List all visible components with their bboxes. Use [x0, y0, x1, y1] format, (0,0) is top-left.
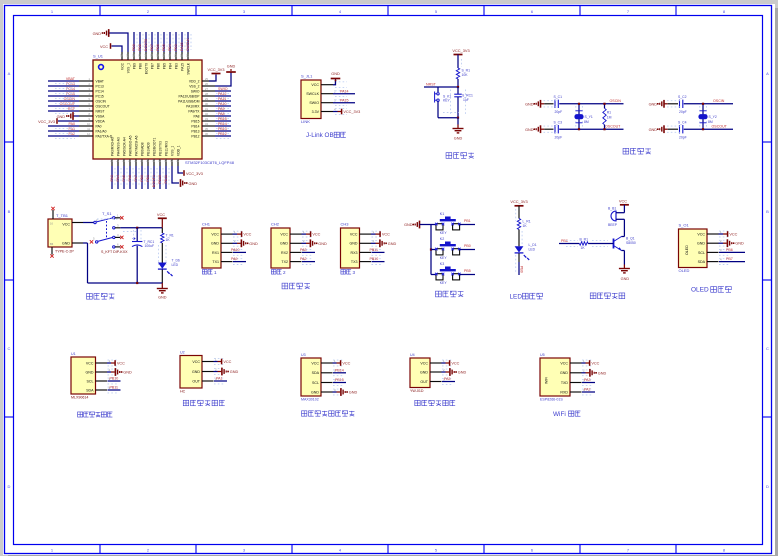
svg-text:U4: U4 — [410, 353, 415, 357]
svg-text:VCC: VCC — [311, 361, 319, 365]
svg-text:PB11/RX3: PB11/RX3 — [164, 141, 168, 156]
svg-text:VSSA: VSSA — [96, 114, 106, 118]
grid dash artifacts reset — [450, 90, 452, 115]
svg-text:B6: B6 — [50, 242, 54, 246]
junction reset bottom — [457, 117, 459, 119]
svg-text:VCC: VCC — [223, 360, 231, 364]
svg-text:KEY: KEY — [440, 281, 448, 285]
J-Link connector S_JL1 body — [301, 80, 321, 119]
svg-text:CH1: CH1 — [202, 222, 211, 227]
resistor S_R1 10K — [456, 68, 459, 79]
svg-text:20pF: 20pF — [555, 136, 563, 140]
svg-text:PA5: PA5 — [122, 175, 126, 182]
svg-text:PB14: PB14 — [335, 368, 344, 372]
TYPE-C GND pin wire — [72, 242, 83, 244]
resistor L_R1 1K — [517, 219, 520, 230]
svg-text:PB7: PB7 — [150, 44, 154, 51]
svg-text:PA4: PA4 — [116, 175, 120, 182]
junction cap to ground rail — [136, 282, 138, 284]
TYPE-C shield stub bottom with no-ERC cross — [51, 247, 53, 255]
ground at CH1 pin2 — [233, 242, 238, 244]
power VCC at CH1 pin1 — [233, 233, 238, 235]
svg-text:GND: GND — [349, 391, 358, 395]
svg-text:B: B — [766, 209, 769, 214]
svg-text:PA3: PA3 — [300, 248, 307, 252]
svg-text:GND: GND — [158, 296, 167, 300]
svg-text:BOOT0: BOOT0 — [144, 63, 148, 74]
svg-text:WiFi: WiFi — [545, 377, 549, 384]
wire U3 pin3 net PB15 — [333, 382, 346, 384]
MCU left net label wires — [48, 81, 79, 136]
svg-text:PA11: PA11 — [218, 97, 226, 101]
svg-text:PA15: PA15 — [180, 42, 184, 51]
wire K1 to net label — [460, 224, 475, 226]
svg-text:PA2: PA2 — [300, 257, 307, 261]
svg-text:VCC: VCC — [100, 45, 108, 49]
svg-text:PB10: PB10 — [370, 257, 379, 261]
svg-text:PA8: PA8 — [194, 114, 200, 118]
ground rail power circuit — [87, 243, 89, 283]
capacitor S_C2 20pF — [680, 100, 683, 108]
ground at MCU top pin 2 — [109, 33, 128, 52]
ground at J-Link pin 1 — [333, 79, 336, 85]
J-Link pins — [321, 81, 347, 115]
svg-text:R1: R1 — [607, 111, 611, 115]
svg-text:PB6: PB6 — [726, 248, 733, 252]
power VCC at OLED pin1 — [719, 233, 724, 235]
svg-text:RX3: RX3 — [351, 251, 358, 255]
wire buzzer to VCC and collector — [616, 212, 624, 214]
svg-text:PA0: PA0 — [96, 124, 102, 128]
svg-text:PB7: PB7 — [726, 257, 733, 261]
MCU left net labels — [60, 77, 76, 136]
resistor T_R1 1K — [161, 228, 163, 233]
svg-text:OUT: OUT — [192, 379, 200, 383]
svg-text:LED: LED — [172, 263, 179, 267]
svg-text:OSCIN: OSCIN — [64, 97, 76, 101]
svg-text:PA3/RXD-A0: PA3/RXD-A0 — [110, 137, 114, 156]
svg-text:S_C2: S_C2 — [678, 95, 687, 99]
svg-text:VCC: VCC — [311, 83, 319, 87]
wire U3 pin2 net PB14 — [333, 372, 346, 374]
capacitor S_C4 20pF — [680, 125, 683, 133]
svg-text:GND: GND — [649, 128, 658, 132]
svg-text:YW-01D: YW-01D — [410, 389, 424, 393]
svg-text:GND: GND — [454, 137, 463, 141]
svg-text:PB7: PB7 — [150, 63, 154, 69]
title liquid level module — [415, 400, 455, 405]
module U5 body — [540, 358, 570, 396]
svg-text:VCC_3V3: VCC_3V3 — [38, 120, 55, 124]
svg-text:1K: 1K — [166, 238, 171, 242]
svg-text:PB12: PB12 — [218, 132, 227, 136]
module U5 pins — [570, 359, 593, 395]
svg-text:VDD_1: VDD_1 — [176, 145, 180, 156]
svg-text:PA9: PA9 — [231, 257, 238, 261]
svg-text:PA1: PA1 — [216, 377, 223, 381]
svg-text:PB1: PB1 — [146, 175, 150, 182]
svg-text:T_RC1: T_RC1 — [144, 240, 155, 244]
module U4 pins — [430, 359, 453, 385]
power VCC at U5 pin1 — [582, 362, 586, 364]
power VCC at U1 pin1 — [107, 362, 111, 364]
svg-text:SWCLK: SWCLK — [186, 62, 190, 75]
svg-text:PB5: PB5 — [162, 44, 166, 51]
svg-text:VCC_3V3: VCC_3V3 — [510, 199, 527, 204]
ground buzzer — [619, 269, 630, 273]
wire node to button — [437, 87, 439, 92]
tact switch K1 — [431, 224, 436, 226]
svg-text:PB13: PB13 — [191, 129, 199, 133]
svg-text:S_O1: S_O1 — [679, 223, 690, 228]
svg-text:8M: 8M — [584, 120, 589, 124]
MCU U1 body STM32F103C8T6 — [93, 60, 202, 159]
svg-text:PB11: PB11 — [164, 175, 168, 184]
svg-text:VCC: VCC — [280, 233, 288, 237]
module U1 pins — [96, 359, 119, 393]
svg-text:SWIO: SWIO — [309, 101, 319, 105]
svg-text:PB10/TX3: PB10/TX3 — [158, 141, 162, 156]
title heart-rate blood-oxygen module — [302, 411, 355, 416]
net label wire to base — [559, 243, 579, 245]
wire U5 pin3 net PA3 — [582, 382, 595, 384]
svg-text:VCC: VCC — [451, 362, 459, 366]
grid dash artifacts LED — [515, 209, 517, 221]
svg-text:PC14: PC14 — [96, 89, 104, 93]
title key circuit — [436, 291, 464, 297]
svg-text:VCC: VCC — [382, 233, 390, 237]
svg-text:PB8: PB8 — [138, 63, 142, 69]
svg-text:GND: GND — [621, 277, 630, 281]
svg-text:VCC: VCC — [560, 361, 568, 365]
svg-text:TX3: TX3 — [351, 260, 358, 264]
svg-text:GND: GND — [86, 370, 94, 374]
power VCC_3V3 at MCU pin VDD_2 — [209, 75, 216, 82]
wire CH3 RX net — [372, 251, 385, 253]
svg-text:100uF: 100uF — [145, 244, 155, 248]
svg-text:S_C4: S_C4 — [678, 120, 687, 124]
crystal S_Y2 8M — [702, 104, 704, 129]
svg-text:PB15: PB15 — [218, 117, 227, 121]
svg-text:D: D — [766, 484, 769, 489]
MCU top net wires — [134, 32, 188, 52]
module U3 body — [301, 358, 321, 396]
grid dash artifacts MCU top — [137, 34, 191, 50]
title reset circuit — [446, 153, 474, 159]
svg-text:GND: GND — [227, 65, 236, 69]
svg-text:GND: GND — [404, 223, 413, 227]
svg-text:PC15: PC15 — [96, 94, 104, 98]
svg-text:20pF: 20pF — [679, 110, 687, 114]
wire CH1 RX net — [233, 251, 246, 253]
svg-text:PB15: PB15 — [335, 378, 344, 382]
wire LED to ground rail — [161, 270, 163, 284]
svg-text:WiFi: WiFi — [553, 411, 566, 418]
svg-text:SDA: SDA — [698, 260, 706, 264]
module U2 body — [180, 356, 202, 389]
svg-text:B_R1: B_R1 — [580, 238, 589, 242]
svg-text:GND: GND — [331, 72, 340, 76]
svg-text:20pF: 20pF — [555, 110, 563, 114]
title IR obstacle module — [183, 400, 224, 405]
svg-text:VCC: VCC — [120, 62, 124, 70]
svg-text:GND: GND — [311, 390, 319, 394]
svg-text:PB0: PB0 — [520, 266, 524, 273]
wire LED to net label PB0 — [518, 253, 520, 262]
svg-text:PB11: PB11 — [370, 248, 379, 252]
svg-text:SWIO: SWIO — [218, 87, 228, 91]
ground power circuit — [157, 289, 168, 293]
capacitor S_C1 20pF — [555, 100, 558, 108]
svg-text:SCL: SCL — [698, 251, 705, 255]
svg-text:GND: GND — [649, 102, 658, 106]
svg-text:PB5: PB5 — [162, 63, 166, 69]
svg-text:S_C3: S_C3 — [554, 120, 563, 124]
svg-text:VCC: VCC — [591, 362, 599, 366]
wire resistor to LED — [518, 230, 520, 247]
power VCC at CH3 pin1 — [371, 233, 376, 235]
svg-text:VCC: VCC — [157, 212, 165, 217]
svg-text:VCC_3V3: VCC_3V3 — [208, 68, 225, 72]
svg-text:PA7/MOSI-A6: PA7/MOSI-A6 — [134, 135, 138, 156]
grid dash artifacts crystal — [544, 100, 558, 102]
module U2 pins — [202, 357, 225, 384]
LED T_D6 — [161, 243, 163, 263]
svg-text:PB10: PB10 — [158, 175, 162, 184]
ground at MCU pin VSS_1 — [172, 166, 179, 183]
wire OLED SCL to PB6 — [719, 251, 745, 253]
svg-text:VCC: VCC — [62, 223, 70, 227]
svg-text:OUT: OUT — [420, 380, 428, 384]
wire resistor to NRST node — [457, 79, 459, 87]
wire CH3 TX net — [372, 261, 385, 263]
wire CH2 RX net — [302, 251, 315, 253]
svg-text:PA9/TX: PA9/TX — [188, 109, 200, 113]
svg-text:CH3: CH3 — [341, 222, 350, 227]
svg-text:MLX90614: MLX90614 — [71, 396, 88, 400]
svg-text:OSCOUT: OSCOUT — [712, 124, 728, 128]
switch pin4 stub no-ERC — [115, 236, 120, 238]
ground at U1 pin2 — [107, 371, 111, 373]
svg-text:VCC: VCC — [192, 360, 200, 364]
svg-text:PB3: PB3 — [174, 44, 178, 51]
switch pin6 stub no-ERC — [115, 246, 120, 248]
svg-text:OLED: OLED — [679, 268, 690, 273]
svg-text:LINK: LINK — [301, 119, 310, 124]
svg-text:PB10: PB10 — [110, 377, 119, 381]
svg-text:S_KFT DIP-KXX: S_KFT DIP-KXX — [101, 250, 128, 254]
svg-text:GND: GND — [697, 242, 705, 246]
svg-text:PB9: PB9 — [132, 63, 136, 69]
junction node NRST — [457, 86, 459, 88]
wire J-Link pin3 to PA15 — [333, 102, 355, 104]
grid dash artifacts crystal — [667, 100, 681, 102]
svg-text:VBAT: VBAT — [96, 79, 104, 83]
svg-text:PB1: PB1 — [464, 219, 471, 223]
capacitor T_RC1 100uF polarized — [136, 228, 138, 242]
svg-text:VCC: VCC — [729, 233, 737, 237]
svg-text:10K: 10K — [462, 73, 469, 77]
svg-text:VCC: VCC — [86, 361, 94, 365]
ground at MCU pin VSS_2 — [215, 73, 231, 87]
svg-text:PB2/BOOT1: PB2/BOOT1 — [152, 138, 156, 156]
module U4 body — [410, 358, 430, 388]
connector CH3 body — [341, 228, 360, 268]
MCU bottom net wires — [112, 166, 166, 189]
svg-text:VSS_1: VSS_1 — [126, 63, 130, 73]
svg-text:S_Y2: S_Y2 — [709, 115, 717, 119]
switch pin1 stub no-ERC — [115, 217, 120, 219]
MCU bottom net labels — [110, 175, 168, 187]
wire button to bottom rail — [437, 102, 439, 118]
svg-text:K1: K1 — [440, 212, 444, 216]
svg-text:LED: LED — [529, 247, 536, 251]
wire U1 pin3 net PB10 — [108, 380, 121, 382]
wire switch pin3 to VCC rail — [115, 227, 120, 229]
svg-text:OLED: OLED — [685, 245, 689, 255]
wire U4 pin3 net PA5 — [442, 381, 455, 383]
svg-text:PA11/USB/DM: PA11/USB/DM — [178, 99, 200, 103]
svg-text:PA6: PA6 — [128, 175, 132, 182]
title power circuit — [87, 293, 115, 299]
power VCC at U4 pin1 — [442, 362, 446, 364]
net label NRST — [424, 86, 458, 88]
MCU top pins — [120, 52, 191, 75]
svg-text:PB0: PB0 — [464, 244, 471, 248]
svg-text:PB14: PB14 — [191, 124, 199, 128]
wire resistor to base — [588, 243, 613, 245]
svg-text:GND: GND — [318, 242, 327, 246]
svg-text:VCC: VCC — [697, 232, 705, 236]
svg-text:D: D — [8, 484, 11, 489]
svg-text:GND: GND — [525, 128, 534, 132]
wire CH2 TX net — [302, 261, 315, 263]
ground flag at MCU pin VSSA — [73, 115, 79, 117]
svg-text:1: 1 — [214, 270, 217, 275]
svg-text:3: 3 — [353, 270, 356, 275]
svg-text:T_S1: T_S1 — [102, 211, 112, 216]
TYPE-C connector T_TB1 body — [48, 219, 72, 247]
svg-text:T_TB1: T_TB1 — [56, 213, 69, 218]
svg-text:C: C — [766, 346, 769, 351]
svg-text:PA14: PA14 — [340, 89, 349, 93]
svg-text:PA1/A0: PA1/A0 — [96, 129, 107, 133]
svg-text:PA15: PA15 — [340, 98, 349, 102]
svg-text:BOOT1: BOOT1 — [152, 175, 156, 187]
CH1 pins — [221, 230, 244, 265]
svg-text:VCC: VCC — [420, 361, 428, 365]
svg-text:K2: K2 — [440, 237, 444, 241]
svg-text:GND: GND — [123, 371, 132, 375]
MCU bottom pins — [110, 135, 181, 166]
svg-text:PA2: PA2 — [584, 388, 591, 392]
svg-text:VCC: VCC — [211, 233, 219, 237]
svg-text:OSCIN: OSCIN — [610, 99, 622, 103]
svg-text:NRST: NRST — [426, 83, 437, 87]
transistor B_Q1 S8050 NPN — [613, 239, 615, 249]
svg-text:VCC: VCC — [350, 233, 358, 237]
svg-text:3.3V: 3.3V — [312, 110, 320, 114]
svg-text:KEY: KEY — [443, 99, 451, 103]
connector CH2 body — [271, 228, 290, 268]
LED L_D1 — [515, 246, 524, 252]
svg-text:VCC: VCC — [243, 233, 251, 237]
svg-text:PA6/MISO-A5: PA6/MISO-A5 — [128, 135, 132, 156]
svg-text:OSCOUT: OSCOUT — [96, 104, 110, 108]
svg-text:OSCOUT: OSCOUT — [605, 124, 621, 128]
svg-text:SWCLK: SWCLK — [186, 38, 190, 51]
ground at OLED pin2 — [719, 242, 724, 244]
power VCC_3V3 at MCU pin VDDA — [58, 120, 79, 122]
svg-text:PB0/AD8: PB0/AD8 — [140, 142, 144, 156]
svg-text:KEY: KEY — [440, 231, 448, 235]
svg-text:PB11: PB11 — [110, 386, 119, 390]
svg-text:A: A — [8, 71, 11, 76]
ground at U3 pin4 — [333, 391, 337, 393]
svg-text:K3: K3 — [440, 262, 444, 266]
ground reset circuit — [457, 118, 459, 125]
svg-text:GND: GND — [420, 370, 428, 374]
svg-text:PA7: PA7 — [134, 175, 138, 182]
MCU right net label wires — [215, 91, 231, 136]
svg-text:VCC: VCC — [312, 233, 320, 237]
svg-text:SWCLK: SWCLK — [306, 92, 319, 96]
svg-text:OSCIN: OSCIN — [713, 99, 725, 103]
wire crystal bottom rail OSCOUT — [684, 128, 733, 130]
MCU right net labels — [218, 87, 228, 136]
svg-text:VSS_1: VSS_1 — [170, 146, 174, 156]
svg-text:PB1/AD9: PB1/AD9 — [146, 142, 150, 156]
svg-text:PA10/RX: PA10/RX — [186, 104, 200, 108]
capacitor S_RC1 1uF — [457, 87, 459, 94]
svg-text:C: C — [8, 346, 11, 351]
MCU top net labels — [132, 38, 190, 51]
svg-text:PA9: PA9 — [218, 107, 225, 111]
wire U5 pin4 net PA2 — [582, 391, 595, 393]
svg-text:U2: U2 — [180, 351, 185, 355]
svg-text:1M: 1M — [607, 115, 612, 119]
grid dash artifacts MCU left — [55, 84, 75, 139]
svg-text:GND: GND — [525, 102, 534, 106]
svg-text:VCC_3V3: VCC_3V3 — [452, 48, 469, 53]
svg-text:GND: GND — [57, 115, 66, 119]
wire K2 to net label — [460, 249, 475, 251]
svg-text:NRST: NRST — [96, 109, 105, 113]
svg-text:U3: U3 — [301, 353, 306, 357]
svg-text:U1: U1 — [71, 352, 76, 356]
module U3 pins — [321, 359, 344, 395]
tact switch K2 — [431, 249, 436, 251]
svg-text:S8050: S8050 — [626, 241, 636, 245]
svg-text:STM32F103C8T6_LQFP48: STM32F103C8T6_LQFP48 — [185, 160, 235, 165]
svg-text:MAX30102: MAX30102 — [301, 398, 319, 402]
svg-text:S_U1: S_U1 — [93, 54, 104, 59]
svg-text:BOOT0: BOOT0 — [144, 39, 148, 51]
tact switch K3 — [431, 274, 436, 276]
svg-text:PA10: PA10 — [231, 248, 240, 252]
svg-text:SDA: SDA — [312, 371, 320, 375]
svg-text:8M: 8M — [708, 120, 713, 124]
svg-text:PB9: PB9 — [132, 44, 136, 51]
svg-text:GND: GND — [350, 242, 358, 246]
svg-text:PB6: PB6 — [156, 44, 160, 51]
svg-text:BEEP: BEEP — [608, 223, 618, 227]
svg-text:OLED: OLED — [691, 287, 709, 294]
svg-text:PB8: PB8 — [138, 44, 142, 51]
switch pin5 no-ERC — [90, 240, 93, 243]
wire U1 pin4 net PB11 — [108, 389, 121, 391]
svg-text:GND: GND — [192, 370, 200, 374]
